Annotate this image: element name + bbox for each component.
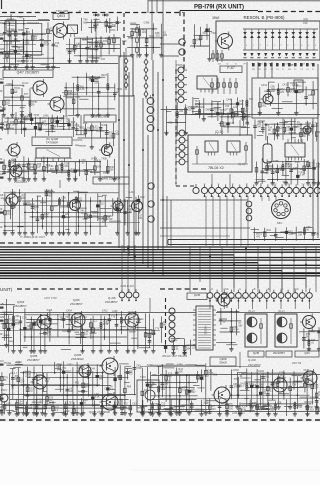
svg-text:22P: 22P	[11, 327, 16, 330]
circuit stage right-band-A2	[219, 108, 251, 135]
svg-text:2SCI8I5Y: 2SCI8I5Y	[70, 302, 83, 306]
circuit stage RF front-end	[3, 18, 60, 69]
circuit stage mixer top	[127, 22, 168, 58]
svg-text:470P: 470P	[107, 218, 113, 221]
svg-text:L80: L80	[6, 402, 11, 405]
resistor comb under Q404	[212, 50, 224, 62]
transistor Q208	[212, 385, 231, 405]
svg-text:.022: .022	[264, 172, 269, 175]
svg-text:C448: C448	[226, 98, 232, 101]
svg-text:J-20I P-20I: J-20I P-20I	[120, 284, 134, 288]
connector P201 left	[0, 388, 8, 402]
svg-text:TP16: TP16	[33, 114, 39, 117]
svg-text:TP33: TP33	[148, 36, 154, 39]
svg-text:6: 6	[287, 45, 288, 47]
transistor Q216 label	[187, 293, 207, 300]
wire vertical drop 3	[264, 62, 266, 78]
svg-text:680: 680	[83, 21, 88, 24]
svg-text:C13: C13	[230, 122, 235, 125]
svg-text:L86: L86	[315, 233, 320, 236]
svg-text:S: S	[0, 137, 2, 141]
svg-text:L24: L24	[233, 106, 238, 109]
node P201 pin labels	[211, 288, 312, 291]
transistor Q409	[99, 143, 113, 158]
svg-text:5: 5	[281, 45, 282, 47]
circuit stage AM left edge	[0, 299, 20, 347]
circuit stage mid-band-C	[0, 112, 87, 137]
svg-text:C207 270P: C207 270P	[44, 296, 57, 300]
circuit stage right-band-A	[253, 118, 320, 142]
svg-text:680: 680	[238, 325, 243, 328]
svg-text:GN: GN	[0, 47, 4, 51]
resistor chain column	[136, 24, 139, 58]
wire vertical drop 2	[257, 62, 259, 78]
wire top-center vertical 2	[156, 0, 158, 13]
svg-text:TP: TP	[0, 375, 4, 379]
wire misc-23	[0, 330, 160, 332]
wire misc-12b	[0, 404, 100, 406]
wire bus vertical taps	[122, 245, 316, 292]
svg-text:Q2I6: Q2I6	[194, 293, 201, 297]
wire top-center vertical 4	[162, 0, 164, 14]
integrated circuit Q406 TA7060P	[32, 137, 72, 162]
svg-text:2SCI8I5Y: 2SCI8I5Y	[273, 351, 285, 355]
svg-text:2SKI9GR: 2SKI9GR	[71, 357, 85, 361]
transistor Q410	[4, 192, 19, 208]
transistor Q405 label	[93, 177, 129, 184]
diode D401	[93, 13, 100, 16]
wire RX-unit dashed border mid vertical	[175, 70, 177, 184]
wire AM-unit dashed border top	[17, 288, 206, 290]
svg-text:RF: RF	[0, 122, 4, 126]
connector MIC DIN	[272, 200, 291, 226]
transistor Q411	[67, 198, 81, 213]
circuit stage right-mid-C	[161, 102, 193, 135]
svg-text:RF: RF	[0, 21, 4, 25]
node C220 label	[225, 297, 245, 300]
svg-text:X438: X438	[15, 362, 21, 365]
wire AM-unit dashed border bottom	[0, 419, 320, 421]
svg-text:100: 100	[164, 383, 169, 386]
transistor Q407	[1, 127, 20, 158]
svg-text:TP27: TP27	[66, 371, 72, 374]
svg-text:TP422: TP422	[93, 76, 101, 79]
svg-text:33K: 33K	[179, 371, 184, 374]
wire long horizontal A3	[66, 48, 120, 50]
circuit stage mid-left-B	[63, 73, 123, 118]
svg-text:C412: C412	[102, 310, 108, 313]
svg-text:470P: 470P	[281, 377, 287, 380]
svg-text:220: 220	[21, 197, 26, 200]
svg-text:470P: 470P	[25, 376, 31, 379]
transistor Q217	[300, 314, 316, 331]
svg-text:C46: C46	[293, 167, 298, 170]
circuit stage right-mid-A	[191, 97, 253, 121]
svg-text:IK: IK	[22, 84, 25, 88]
wire top-center vertical 3	[147, 0, 149, 13]
circuit stage AM row1 left	[3, 308, 167, 353]
connector pins on border	[160, 39, 185, 56]
wire right-edge vertical 1	[312, 118, 314, 240]
svg-text:220: 220	[212, 408, 217, 411]
wire lower horizontal 2	[160, 227, 250, 229]
svg-text:R89: R89	[127, 385, 132, 388]
wire misc-22	[0, 222, 140, 224]
wire misc-2	[95, 18, 97, 40]
svg-text:220: 220	[280, 91, 285, 94]
svg-text:X32: X32	[168, 121, 173, 124]
svg-text:33K: 33K	[242, 408, 247, 411]
node UNIT label	[0, 287, 13, 292]
circuit stage AM row2 right	[230, 369, 320, 410]
svg-text:C4: C4	[0, 359, 4, 363]
circuit stage mid-band-B	[72, 122, 120, 149]
svg-text:3.3K: 3.3K	[15, 322, 20, 325]
svg-text:3.3K: 3.3K	[80, 88, 85, 91]
svg-text:T40I: T40I	[17, 15, 23, 19]
svg-text:2SCI8I5Y: 2SCI8I5Y	[14, 304, 27, 308]
circuit stage lower-left-A	[1, 189, 146, 235]
svg-text:GN: GN	[0, 77, 4, 81]
svg-text:+B: +B	[267, 289, 270, 291]
svg-text:680: 680	[48, 194, 53, 197]
svg-text:1K: 1K	[290, 91, 293, 94]
diode D402	[102, 13, 109, 16]
svg-text:+B: +B	[0, 302, 4, 306]
svg-text:.022: .022	[141, 31, 146, 34]
wire misc-19	[62, 92, 118, 94]
svg-text:X490: X490	[44, 189, 50, 192]
svg-text:0: 0	[315, 45, 316, 47]
svg-text:680: 680	[102, 220, 107, 223]
svg-text:MIC: MIC	[277, 221, 283, 225]
wire top-left horizontal	[0, 16, 36, 18]
wire long horizontal A	[0, 63, 118, 65]
transistor Q203	[123, 311, 140, 329]
svg-text:100: 100	[229, 408, 234, 411]
svg-text:R19: R19	[267, 229, 272, 232]
svg-text:470: 470	[161, 405, 166, 408]
transistor Q202 label	[14, 300, 27, 308]
svg-text:680: 680	[28, 407, 33, 410]
node right sub-box	[252, 78, 318, 118]
connector small column x150	[147, 95, 154, 131]
svg-text:470P: 470P	[17, 49, 23, 52]
svg-text:33K: 33K	[110, 169, 115, 172]
svg-text:UNIT): UNIT)	[0, 287, 13, 292]
svg-text:C452: C452	[67, 364, 73, 367]
svg-text:X488: X488	[177, 363, 183, 366]
svg-text:Q408 2SCI8I5Y: Q408 2SCI8I5Y	[91, 115, 110, 119]
svg-text:T76: T76	[155, 327, 160, 330]
svg-text:100: 100	[239, 103, 244, 106]
svg-text:TP67: TP67	[203, 375, 209, 378]
svg-text:X471: X471	[95, 159, 101, 162]
node T402 label	[15, 59, 33, 63]
transistor Q208 label	[210, 357, 236, 366]
svg-text:220: 220	[188, 109, 193, 112]
circuit stage under-border	[82, 17, 122, 33]
wire J401 drops	[206, 196, 276, 246]
wire lower horizontal	[160, 199, 248, 201]
wire left trunk verticals lower	[163, 196, 171, 246]
svg-text:3.3K: 3.3K	[47, 334, 52, 337]
wire misc-13b	[140, 366, 260, 368]
svg-text:33K: 33K	[144, 392, 149, 395]
node margin smudge	[130, 469, 320, 471]
svg-text:X448: X448	[303, 369, 309, 372]
wire bus lines	[0, 247, 320, 288]
svg-text:D404: D404	[23, 115, 29, 118]
wire long horizontal A2	[0, 20, 50, 22]
capacitor C414	[205, 24, 208, 40]
wire RX-unit dashed border inner vertical	[123, 13, 125, 48]
connector P201 row	[207, 290, 312, 302]
svg-text:1K: 1K	[288, 166, 291, 169]
wire misc-21	[0, 205, 70, 207]
connector pins on trunk	[148, 183, 154, 222]
transistor Q201 label	[70, 298, 83, 306]
integrated circuit M5155	[193, 306, 216, 350]
svg-text:Q2I5: Q2I5	[253, 351, 260, 355]
circuit stage between border and RESON	[190, 24, 216, 61]
svg-text:L444: L444	[129, 191, 135, 194]
integrated circuit AN240 A	[245, 309, 267, 347]
transistor Q205	[31, 373, 48, 391]
svg-text:GND: GND	[293, 289, 298, 291]
svg-text:C465: C465	[43, 114, 49, 117]
node left-edge cut labels	[0, 21, 4, 412]
node L201 label	[232, 411, 244, 415]
connector J400 diamond pins	[119, 48, 133, 96]
inductor L417	[294, 80, 303, 92]
circuit stage mid-band-A	[2, 156, 116, 181]
connector P406 column	[175, 63, 187, 103]
svg-text:T60: T60	[211, 32, 216, 35]
node PB-8 label	[288, 63, 297, 67]
svg-text:470: 470	[256, 235, 261, 238]
node crystal filter	[263, 136, 272, 170]
svg-text:(Q2): (Q2)	[303, 17, 308, 21]
wire RX-unit dashed border top-left	[2, 12, 183, 14]
svg-text:RESON. B (PB-I805): RESON. B (PB-I805)	[244, 15, 286, 20]
wire misc-7	[59, 180, 61, 188]
wire misc-15	[0, 44, 36, 46]
svg-text:R422: R422	[305, 122, 311, 125]
svg-text:220: 220	[51, 128, 56, 131]
svg-text:Q403: Q403	[57, 14, 65, 18]
svg-text:.001: .001	[262, 105, 267, 108]
svg-text:4: 4	[274, 45, 275, 47]
svg-text:0: 0	[246, 45, 247, 47]
svg-text:470P: 470P	[203, 402, 209, 405]
svg-text:X473: X473	[47, 309, 53, 312]
wire misc-11b	[216, 312, 320, 314]
wire RX-unit dashed border top-right	[258, 11, 320, 13]
svg-text:D69: D69	[206, 108, 211, 111]
wire misc-13	[160, 374, 320, 376]
wire misc-16	[0, 54, 44, 56]
svg-text:P406: P406	[176, 63, 183, 67]
svg-text:PB-I79I (RX UNIT): PB-I79I (RX UNIT)	[194, 5, 244, 11]
node Q211 label2	[292, 361, 302, 365]
svg-text:X491: X491	[63, 116, 69, 119]
svg-text:L27: L27	[95, 328, 100, 331]
transistor Q418	[8, 163, 23, 179]
circuit stage right-mid-B	[258, 81, 318, 115]
transistor Q204	[77, 363, 92, 379]
svg-text:C52: C52	[132, 403, 137, 406]
svg-text:AM? C220 4.7/50: AM? C220 4.7/50	[225, 297, 245, 300]
wire vertical drop 1	[246, 62, 248, 122]
svg-text:220: 220	[71, 50, 76, 53]
svg-text:.001: .001	[92, 215, 97, 218]
svg-text:D431: D431	[102, 124, 108, 127]
svg-text:T478: T478	[195, 100, 201, 103]
svg-text:10K: 10K	[115, 133, 120, 136]
svg-text:X16: X16	[202, 32, 207, 35]
svg-text:.047: .047	[270, 88, 275, 91]
svg-text:3.3K: 3.3K	[95, 396, 100, 399]
circuit stage lower-right	[251, 226, 320, 241]
svg-text:7BL08 X2: 7BL08 X2	[208, 166, 224, 170]
transistor Q419	[301, 124, 312, 136]
wire misc-12	[0, 394, 136, 396]
circuit stage right-band-B	[254, 158, 320, 185]
svg-text:470P: 470P	[44, 44, 50, 47]
node LINE label	[292, 83, 299, 87]
svg-text:69W40M: 69W40M	[27, 21, 40, 25]
transistor Q206 label	[71, 353, 85, 361]
svg-text:TA7060P: TA7060P	[46, 141, 58, 145]
svg-text:2: 2	[260, 45, 261, 47]
wire misc-6	[239, 120, 241, 136]
svg-text:C458: C458	[144, 22, 150, 25]
svg-text:D32: D32	[140, 196, 145, 199]
wire misc-17	[66, 44, 120, 46]
wire misc-4	[229, 174, 231, 188]
svg-text:LINE: LINE	[292, 83, 299, 87]
node Q210 label	[248, 358, 261, 367]
circuit stage AM row2 left	[0, 361, 142, 415]
svg-text:Q405 2SC535A: Q405 2SC535A	[102, 177, 121, 181]
svg-text:GN: GN	[0, 315, 4, 319]
transistor Q417 label	[3, 70, 53, 78]
svg-text:C45: C45	[97, 165, 102, 168]
svg-text:L497: L497	[295, 161, 301, 164]
svg-text:9: 9	[308, 45, 309, 47]
wire top-center vertical 1	[151, 0, 153, 60]
svg-text:T69: T69	[75, 124, 80, 127]
transistor Q211	[301, 369, 318, 387]
svg-text:R18: R18	[8, 319, 13, 322]
node RESON.B (PB-1805) box	[216, 15, 320, 60]
wire misc-8	[149, 298, 151, 312]
svg-text:Q2II: Q2II	[304, 351, 310, 355]
connector J401 lone pin	[193, 184, 199, 194]
svg-text:22P: 22P	[6, 102, 11, 105]
svg-text:.047: .047	[191, 391, 196, 394]
svg-text:.001: .001	[64, 165, 69, 168]
node corner text 33K	[303, 17, 308, 25]
svg-text:GND: GND	[223, 289, 228, 291]
svg-text:R407: R407	[101, 74, 107, 77]
node J401 pin labels	[204, 184, 320, 186]
svg-text:AF: AF	[0, 193, 4, 197]
svg-text:T59: T59	[292, 384, 297, 387]
node PB-1791 RX UNIT title	[180, 5, 258, 17]
svg-text:L56: L56	[277, 402, 282, 405]
integrated circuit AN240 B	[275, 309, 297, 347]
connector column x249	[246, 201, 252, 221]
node UNIT PB label	[162, 355, 188, 358]
svg-text:L89: L89	[179, 110, 184, 113]
svg-text:220: 220	[163, 34, 168, 37]
svg-text:2SC74I: 2SC74I	[292, 361, 302, 365]
svg-text:AF: AF	[0, 33, 4, 37]
svg-text:C44: C44	[90, 368, 95, 371]
svg-text:S: S	[0, 105, 2, 109]
integrated circuit 7BL08 X2	[188, 130, 252, 172]
svg-text:2SCI8I5Y: 2SCI8I5Y	[14, 180, 29, 184]
wire AM bottom horizontal	[160, 411, 320, 413]
svg-text:36WI: 36WI	[212, 16, 220, 20]
wire RX-unit dashed border bottom	[0, 242, 112, 244]
svg-text:C415: C415	[282, 83, 288, 86]
wire RX-unit dashed border upper vertical	[183, 12, 185, 70]
svg-text:.047: .047	[288, 233, 293, 236]
svg-text:Q-2I0: Q-2I0	[248, 358, 256, 362]
node top-edge labels	[2, 0, 82, 13]
transistor Q206	[100, 356, 119, 376]
resistor comb right-mid	[211, 78, 238, 94]
wire misc-5	[211, 174, 213, 188]
svg-text:7: 7	[294, 45, 295, 47]
svg-text:680: 680	[99, 378, 104, 381]
svg-text:470P: 470P	[297, 406, 303, 409]
svg-text:3.3K: 3.3K	[74, 320, 79, 323]
transistor Q408 label	[84, 115, 116, 122]
svg-text:T408: T408	[101, 158, 107, 161]
wire misc-18	[0, 100, 56, 102]
svg-text:P-4I7: P-4I7	[227, 66, 235, 70]
transistor Q216	[216, 292, 231, 308]
svg-text:R15: R15	[309, 378, 314, 381]
svg-text:C434: C434	[261, 84, 267, 87]
svg-text:22P: 22P	[20, 380, 25, 383]
transistor Q401	[31, 79, 48, 97]
svg-text:R30: R30	[83, 122, 88, 125]
transistor Q203 label	[105, 296, 118, 304]
svg-text:AF: AF	[0, 172, 4, 176]
circuit stage left-edge-top	[2, 39, 30, 64]
node H1-4.7 label	[10, 371, 18, 375]
connector J401 row	[201, 184, 320, 197]
integrated circuit right IC	[285, 139, 305, 161]
transistor Q211 label	[295, 351, 319, 357]
svg-text:22P: 22P	[25, 42, 30, 45]
svg-text:470P: 470P	[233, 329, 239, 332]
transistor Q205 label	[27, 354, 40, 362]
svg-text:2SCI8I5Y: 2SCI8I5Y	[105, 300, 118, 304]
node P-417 label	[220, 66, 242, 73]
wire AM-unit dashed border left vertical	[165, 298, 167, 345]
transistor Q412	[111, 199, 124, 213]
svg-text:P88 I6: P88 I6	[288, 63, 297, 67]
svg-text:680: 680	[235, 115, 240, 118]
svg-text:3.3K: 3.3K	[10, 124, 15, 127]
transistor Q207	[89, 392, 118, 414]
